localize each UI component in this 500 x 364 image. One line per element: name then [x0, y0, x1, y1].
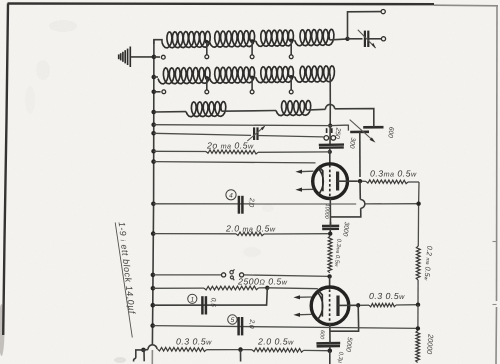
node V2 cathode j: [328, 349, 333, 354]
arrow V1 b: [299, 188, 314, 190]
wire plate-vert to cathode elbow: [331, 208, 361, 217]
border frame top: [8, 2, 435, 5]
wire right rail: [417, 182, 420, 246]
node 2500 j: [265, 286, 269, 290]
resistor 2.0MA: [153, 233, 236, 235]
wire right rail 3: [417, 305, 419, 329]
capacitor V1 cathode plates: [322, 225, 339, 228]
node V1 plate: [358, 179, 362, 183]
border frame left: [3, 4, 8, 336]
wire grid vertical: [329, 104, 331, 126]
wire row3 mid: [222, 110, 277, 113]
label C5 num: [228, 315, 237, 324]
wire 2500 down: [153, 288, 267, 305]
capacitor antenna series: [348, 38, 363, 40]
tube V2 plate: [336, 296, 339, 317]
wire y203 right part: [365, 203, 419, 205]
node antenna junction: [345, 37, 349, 41]
capacitor trimmer 300-600 plates: [350, 131, 369, 134]
terminal plug right: [331, 136, 336, 141]
paper smudges: [0, 20, 274, 363]
tube V2 envelope: [311, 287, 349, 325]
node grid j2: [328, 150, 332, 154]
wire row1 lead: [154, 40, 162, 44]
svg-text:600: 600: [318, 330, 325, 339]
resistor 2500: [153, 287, 204, 289]
coil L1d: [295, 29, 334, 46]
node grid j1: [328, 124, 332, 128]
capacitor C4 plates: [238, 196, 241, 214]
tube V1 envelope: [313, 164, 348, 199]
wire hop row3 over grid line: [325, 104, 334, 109]
node V2 grid j: [327, 274, 331, 278]
node row1 tap3: [289, 39, 293, 43]
terminal bus T1: [154, 56, 160, 58]
svg-text:300: 300: [348, 137, 356, 149]
wire row1 to antenna: [330, 39, 348, 40]
arrow V2 a: [297, 296, 312, 298]
svg-text:10000: 10000: [323, 203, 330, 218]
svg-text:1: 1: [190, 296, 194, 303]
resistor 0.3MA V1: [362, 180, 366, 182]
svg-text:0,5: 0,5: [209, 297, 217, 307]
svg-text:2o ma 0.5w: 2o ma 0.5w: [206, 140, 254, 150]
wire bottom left drop: [143, 350, 145, 361]
svg-text:0.3 0.5w: 0.3 0.5w: [369, 291, 405, 301]
tube V2 cathode: [317, 292, 322, 320]
svg-text:0,3µ: 0,3µ: [336, 351, 344, 364]
coil L3a: [186, 102, 226, 117]
wire bus y133 tuning: [154, 133, 251, 135]
node row2 tap3: [289, 75, 293, 79]
node row1 tap2: [250, 39, 254, 43]
coil L2c: [256, 66, 294, 82]
svg-text:20000: 20000: [425, 333, 436, 355]
wire bottom mid drop: [240, 350, 242, 362]
svg-text:4: 4: [229, 192, 233, 199]
resistor 0.2MA right: [416, 246, 420, 280]
capacitor C5 plates: [237, 317, 240, 335]
wire row2 lead: [154, 76, 158, 78]
tube V1 plate: [336, 172, 339, 191]
wire y124 to trimmer300: [330, 125, 348, 130]
paper noise: [0, 0, 1, 1]
wire V2 cath cap join: [329, 342, 331, 344]
coil L2b: [210, 67, 255, 83]
wire antenna up: [348, 12, 381, 39]
wire hop plate-vert over y203: [360, 199, 365, 208]
svg-text:2,0: 2,0: [247, 197, 255, 208]
node right j328: [416, 326, 420, 330]
wire grid to tube1: [329, 148, 331, 164]
wire V1 plate node down: [359, 181, 361, 199]
label C4 num: [226, 190, 236, 200]
arrow trimmer: [350, 120, 374, 141]
node right j203: [416, 202, 420, 206]
svg-text:2.0 0.5w: 2.0 0.5w: [257, 337, 294, 347]
resistor 0.3 V2: [360, 304, 369, 306]
arrow V2 b: [297, 313, 312, 315]
svg-text:2,0: 2,0: [247, 318, 255, 329]
terminal plug P1: [222, 273, 226, 277]
wire row1 gap3: [289, 40, 295, 42]
arrow V1 a: [299, 170, 314, 173]
node right j305: [416, 303, 420, 307]
wire V2 grid lead: [329, 276, 331, 288]
wire bus y203: [153, 203, 356, 205]
svg-text:2.0 ma 0.5w: 2.0 ma 0.5w: [225, 223, 276, 233]
terminal antenna A2: [381, 37, 385, 41]
wire grid vertical 2: [329, 126, 331, 144]
wire V1 cath cap join: [329, 222, 331, 227]
wire 2500 to node: [259, 287, 266, 289]
wire row3 left: [154, 111, 186, 113]
node bottom mid j: [238, 347, 243, 352]
wire 2500 cont: [267, 287, 318, 290]
wire row1 gap1: [206, 41, 210, 43]
node V1 cathode j: [328, 232, 332, 236]
wire V1 plate out: [338, 180, 358, 182]
wire plug to grid j: [244, 275, 330, 277]
wire trimmer down to plate node: [359, 132, 361, 177]
wire bottom to hop: [143, 349, 148, 351]
wire hop over bus: [148, 345, 157, 350]
wire V2 plate out: [338, 304, 356, 306]
coil L1c: [256, 30, 294, 46]
coil L1a: [162, 31, 210, 48]
node row2 tap2: [250, 76, 254, 80]
trimmer 250 plates: [326, 128, 328, 133]
capacitor variable tuning C-main: [253, 127, 255, 140]
capacitor V2 cathode plates: [316, 342, 340, 345]
wire row2 down: [329, 77, 331, 104]
terminal plug P2: [240, 273, 244, 277]
svg-text:5: 5: [231, 317, 235, 324]
wire main bus: [152, 40, 154, 345]
node bottom left j: [141, 348, 146, 353]
tube V2 grid: [329, 289, 331, 322]
capacitor grid plates: [319, 143, 344, 146]
node V2 plate: [356, 303, 360, 307]
resistor 20ma: [154, 150, 206, 152]
wire bus y326: [153, 326, 418, 329]
wire right rail 2: [417, 280, 419, 305]
terminal plug left: [324, 136, 329, 141]
svg-text:2500Ω 0.5w: 2500Ω 0.5w: [237, 277, 288, 287]
coil L1b: [210, 31, 255, 48]
ground: [129, 47, 131, 68]
capacitor C1 plates: [201, 296, 204, 314]
wire row1 gap2: [250, 40, 256, 42]
label plug num: [230, 271, 233, 274]
node row2 tap1: [205, 76, 209, 80]
border frame right: [496, 6, 499, 301]
wire bottom hook: [134, 350, 144, 362]
wire ground to bus: [131, 56, 154, 58]
terminal antenna A1: [381, 10, 385, 14]
wire cap600 stem: [373, 126, 375, 127]
wire bus y275: [153, 274, 221, 276]
wire row3 right: [307, 108, 326, 111]
coil L2a: [158, 67, 210, 84]
wire row2 gap1: [206, 77, 210, 79]
svg-text:0.3 0.5w: 0.3 0.5w: [176, 337, 212, 347]
wire y133 end: [322, 136, 324, 138]
resistor V1 cathode bias: [329, 198, 331, 226]
wire row3 to cap600: [335, 109, 374, 127]
resistor V2 bias: [329, 323, 331, 344]
resistor 20000 right: [416, 331, 420, 363]
coil L2d: [295, 66, 335, 82]
wire bus y161 grid: [154, 162, 316, 163]
wire row2 gap2: [250, 76, 256, 78]
label block underline: [115, 223, 132, 338]
node row1 tap1: [205, 40, 209, 44]
resistor V2 gridleak: [328, 236, 332, 273]
resistor 2.0 bottom: [243, 349, 252, 351]
tube V1 grid: [329, 165, 331, 198]
svg-text:600: 600: [386, 126, 394, 138]
svg-text:0.3ma 0.5w: 0.3ma 0.5w: [370, 169, 417, 179]
coil L3b: [276, 101, 311, 116]
wire row2 gap3: [289, 76, 295, 78]
wire V2 plate down: [330, 305, 358, 331]
tube V1 cathode: [318, 168, 324, 195]
terminal bus T2: [154, 91, 161, 93]
wire bus y124: [154, 124, 331, 127]
bus junction dots: [152, 55, 157, 60]
resistor 0.3 bottom: [158, 347, 207, 351]
label C1 num: [188, 294, 197, 303]
wire V2 out bottom: [329, 351, 331, 364]
